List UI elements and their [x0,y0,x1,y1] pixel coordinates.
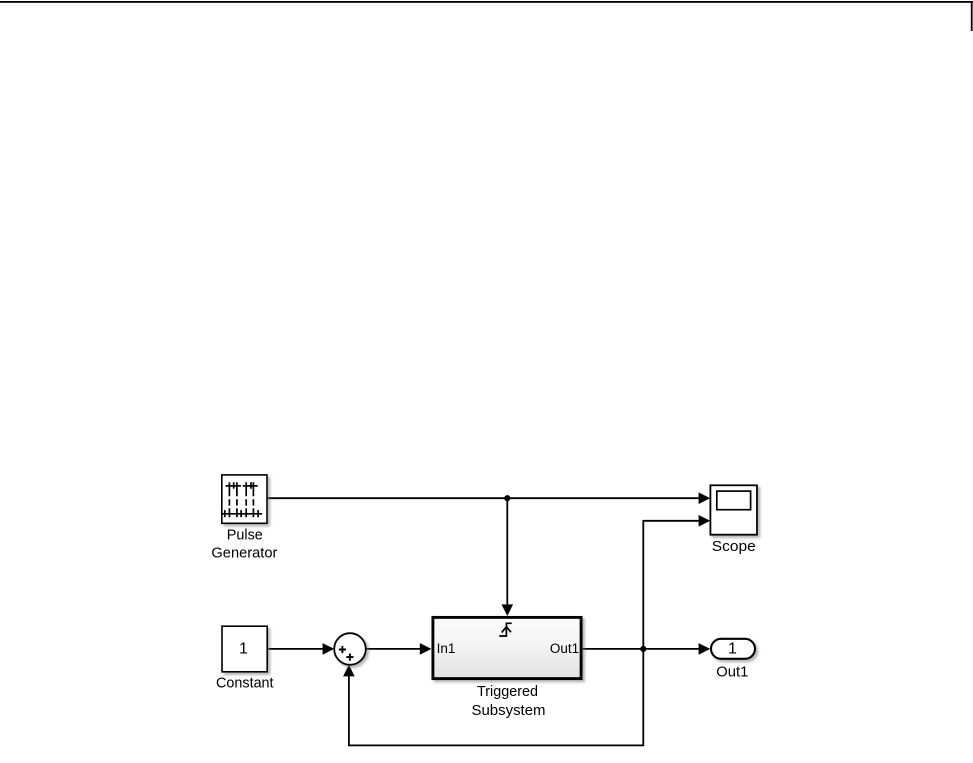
svg-text:Generator: Generator [211,545,277,561]
label Constant [216,675,274,691]
wire: feedback loop to Sum bottom input [343,649,643,746]
value label 1 [239,641,248,658]
wire: Triggered Subsystem Out1 to Out1 port [583,643,711,655]
label Out1 [716,664,748,680]
block Scope [710,485,757,534]
block Constant [222,626,267,672]
svg-text:Scope: Scope [712,539,756,555]
svg-text:Constant: Constant [216,675,274,691]
label Triggered Subsystem [472,684,546,719]
output port Out1 oval [711,639,755,659]
svg-text:Subsystem: Subsystem [472,703,546,719]
right frame corner line [971,1,973,31]
label Scope [712,539,756,555]
value label 1 [728,641,737,658]
wire: Sum output to Triggered Subsystem In1 [366,643,432,655]
top frame border line [0,1,973,3]
port label Out1 [550,641,579,656]
sum junction circle [334,633,366,665]
block Triggered Subsystem [433,617,581,678]
port label In1 [437,641,456,656]
svg-text:Out1: Out1 [716,664,748,680]
block Pulse Generator [222,475,267,523]
sum plus sign (bottom input) [346,654,353,661]
svg-text:1: 1 [728,641,737,658]
svg-text:Triggered: Triggered [477,684,538,700]
node: junction on output wire [640,646,646,652]
wire: Pulse Generator output to Scope input 1 [267,492,710,504]
node: junction on pulse wire [504,495,510,501]
wire: branch up to Scope input 2 [643,515,710,649]
svg-text:In1: In1 [437,641,456,656]
scope screen [717,491,751,510]
svg-text:Out1: Out1 [550,641,579,656]
svg-text:Pulse: Pulse [227,528,263,544]
label Pulse Generator [211,528,277,562]
sum plus sign (left input) [339,646,346,653]
icon: pulse waveform [222,482,262,517]
svg-text:1: 1 [239,641,248,658]
wire: Constant output to Sum [267,643,334,655]
wire: trigger line down to Triggered Subsystem [502,498,514,616]
trigger symbol [499,623,511,636]
